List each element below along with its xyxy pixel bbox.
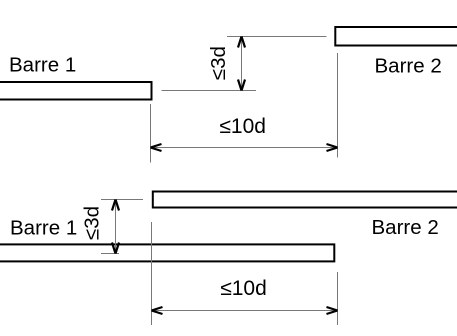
- svg-text:Barre 2: Barre 2: [375, 55, 442, 78]
- arrowhead right (bottom figure ≤10d): [327, 307, 338, 314]
- extension line left (top figure ≤10d): [150, 104, 152, 163]
- svg-text:≤10d: ≤10d: [220, 277, 267, 300]
- extension line right (bottom figure ≤10d): [337, 272, 339, 325]
- dimension line ≤10d (top figure): [151, 147, 338, 149]
- svg-text:Barre 2: Barre 2: [372, 216, 439, 239]
- arrowhead up (top figure ≤3d): [238, 37, 245, 48]
- extension line right (top figure ≤10d): [337, 53, 339, 158]
- extension line left (bottom figure ≤10d): [151, 222, 153, 325]
- dimension line ≤10d (bottom figure): [152, 310, 338, 312]
- svg-text:Barre 1: Barre 1: [9, 53, 76, 76]
- extension line at bar 2 axis (bottom figure, upper): [101, 199, 143, 201]
- arrowhead left (top figure ≤10d): [151, 144, 162, 151]
- arrowhead up (bottom figure ≤3d): [112, 200, 119, 211]
- extension line at bar 1 axis (bottom figure, lower): [101, 253, 119, 255]
- dimension line ≤3d (top figure): [241, 37, 243, 91]
- dimension line ≤3d (bottom figure): [115, 200, 117, 254]
- svg-text:≤10d: ≤10d: [219, 115, 266, 138]
- svg-text:Barre 1: Barre 1: [10, 216, 77, 239]
- extension line at bar 2 axis (top figure, upper): [227, 36, 327, 38]
- svg-text:≤3d: ≤3d: [207, 46, 230, 80]
- extension line at bar 1 axis (top figure, lower): [162, 90, 257, 92]
- arrowhead down (top figure ≤3d): [238, 80, 245, 91]
- arrowhead left (bottom figure ≤10d): [152, 307, 163, 314]
- svg-text:≤3d: ≤3d: [81, 206, 104, 240]
- bar Barre 2 (bottom figure): [153, 192, 457, 208]
- bar Barre 1 (bottom figure): [0, 244, 334, 261]
- bar Barre 1 (top figure): [0, 82, 152, 100]
- arrowhead right (top figure ≤10d): [327, 144, 338, 151]
- bar Barre 2 (top figure): [335, 27, 457, 46]
- arrowhead down (bottom figure ≤3d): [112, 243, 119, 254]
